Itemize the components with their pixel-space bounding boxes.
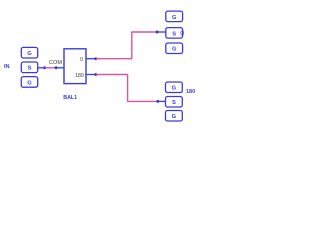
reference designator BAL1 [63,95,77,101]
svg-text:G: G [27,80,32,86]
wire 0 output to S2 [96,32,157,59]
junction dot at 180 output [94,73,97,76]
svg-text:S: S [28,66,32,72]
junction dot at COM [55,66,58,69]
svg-text:0: 0 [180,30,184,37]
junction dot at S3 [156,100,159,103]
pin stub 180 output [86,74,96,76]
svg-text:IN: IN [4,64,10,70]
svg-text:180: 180 [75,73,84,79]
junction dot at S1 [43,66,46,69]
wire S1 to BAL1 COM [45,67,56,69]
svg-text:G: G [27,51,32,57]
svg-text:COM: COM [49,60,62,66]
port G6 (180-deg output bottom ground) [166,111,183,122]
pin label 180 [75,73,84,79]
port S3 (180-deg output signal) [166,97,183,108]
port G3 (0-deg output top ground) [166,11,183,22]
port S1 (input signal) [21,62,37,73]
pin stub S1 to junction [38,67,45,69]
port G4 (0-deg output bottom ground) [166,43,183,54]
svg-text:G: G [172,86,177,92]
net label 180 [186,89,195,95]
svg-text:180: 180 [186,89,195,95]
wire 180 output to S3 [96,75,158,102]
net label 0 [180,30,184,37]
svg-text:G: G [172,47,177,53]
port S2 (0-deg output signal) [166,28,183,38]
balun BAL1 body [64,49,86,84]
pin stub S3 [158,100,166,102]
pin label 0 [80,57,83,63]
port G1 (input top ground) [21,47,37,58]
svg-text:S: S [172,100,176,106]
junction dot at 0 output [94,57,97,60]
pin label COM [49,60,62,66]
pin stub COM [56,67,64,69]
net label IN [4,64,10,70]
svg-text:BAL1: BAL1 [63,95,77,101]
svg-text:0: 0 [80,57,83,63]
svg-text:S: S [172,31,176,37]
junction dot at S2 [156,31,159,34]
svg-text:G: G [172,114,177,120]
port G5 (180-deg output top ground) [166,82,183,93]
svg-text:G: G [172,15,177,21]
port G2 (input bottom ground) [21,77,37,88]
pin stub 0 output [86,58,96,60]
pin stub S2 [157,31,166,33]
